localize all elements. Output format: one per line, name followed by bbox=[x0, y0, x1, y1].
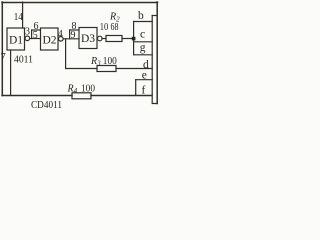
resistor R3 body bbox=[97, 66, 116, 72]
wire D2 pin 6 stub bbox=[32, 29, 41, 31]
svg-text:R3: R3 bbox=[90, 56, 101, 68]
svg-text:e: e bbox=[142, 70, 147, 82]
gate D2 box bbox=[41, 28, 59, 50]
wire left rail bbox=[1, 2, 3, 96]
gate D2 output bubble pin 4 bbox=[59, 37, 64, 42]
display LED body outline bbox=[152, 15, 157, 17]
wire pin 14 supply to D1 bbox=[22, 2, 24, 28]
svg-text:100: 100 bbox=[81, 84, 95, 95]
wire pin 7 ground from D1 bbox=[10, 50, 12, 96]
svg-text:D3: D3 bbox=[81, 33, 95, 45]
gate D1 box bbox=[7, 28, 25, 50]
wire segment b bbox=[134, 21, 153, 23]
svg-text:D2: D2 bbox=[43, 35, 57, 47]
svg-text:3: 3 bbox=[25, 26, 30, 37]
wire branch down to R3 bbox=[65, 39, 67, 69]
wire top supply rail bbox=[2, 2, 158, 4]
wire bottom ground rail / segment f feed bbox=[2, 95, 72, 97]
svg-text:100: 100 bbox=[103, 56, 117, 67]
gate D3 box bbox=[79, 28, 97, 49]
svg-text:g: g bbox=[140, 42, 146, 54]
svg-text:68: 68 bbox=[111, 22, 119, 33]
wire D3 output to R2 bbox=[102, 38, 106, 40]
resistor R2 body bbox=[106, 36, 122, 42]
svg-text:9: 9 bbox=[71, 30, 76, 41]
resistor R4 body bbox=[72, 93, 91, 99]
wire D3 input link bbox=[69, 30, 71, 39]
wire D1 output to D2 inputs bbox=[30, 38, 41, 40]
junction node dot R2/bus bbox=[132, 37, 136, 41]
wire segment c bbox=[134, 41, 153, 43]
wire D2 output to D3 inputs bbox=[63, 38, 79, 40]
svg-text:4011: 4011 bbox=[14, 54, 33, 66]
wire R3 to display segment d bbox=[116, 68, 152, 70]
wire segment e bbox=[136, 79, 153, 81]
wire segment e/f bus bbox=[135, 80, 137, 96]
wire R2 to segment bus bbox=[122, 38, 134, 40]
svg-text:c: c bbox=[140, 29, 145, 41]
wire segment b/c/g bus bbox=[133, 22, 135, 55]
svg-text:4: 4 bbox=[58, 29, 63, 40]
svg-text:14: 14 bbox=[14, 11, 23, 23]
gate D3 output bubble pin 10 bbox=[98, 36, 103, 41]
svg-text:10: 10 bbox=[100, 22, 109, 33]
svg-text:f: f bbox=[142, 85, 146, 97]
wire D2 input link bbox=[31, 30, 33, 39]
svg-text:5: 5 bbox=[33, 30, 38, 41]
wire R3 to segment d bbox=[66, 68, 97, 70]
wire right rail / display common anode bbox=[156, 2, 158, 104]
svg-text:R4: R4 bbox=[67, 84, 78, 96]
wire D3 pin 8 stub bbox=[70, 29, 79, 31]
svg-text:D1: D1 bbox=[9, 35, 23, 47]
svg-text:CD4011: CD4011 bbox=[31, 99, 62, 110]
svg-text:b: b bbox=[138, 10, 144, 22]
wire R4 to display segment f bbox=[91, 95, 152, 97]
svg-text:R2: R2 bbox=[109, 12, 120, 24]
svg-text:7: 7 bbox=[1, 52, 6, 63]
gate D1 output bubble pin 3 bbox=[25, 36, 30, 41]
wire segment g bbox=[134, 54, 153, 56]
